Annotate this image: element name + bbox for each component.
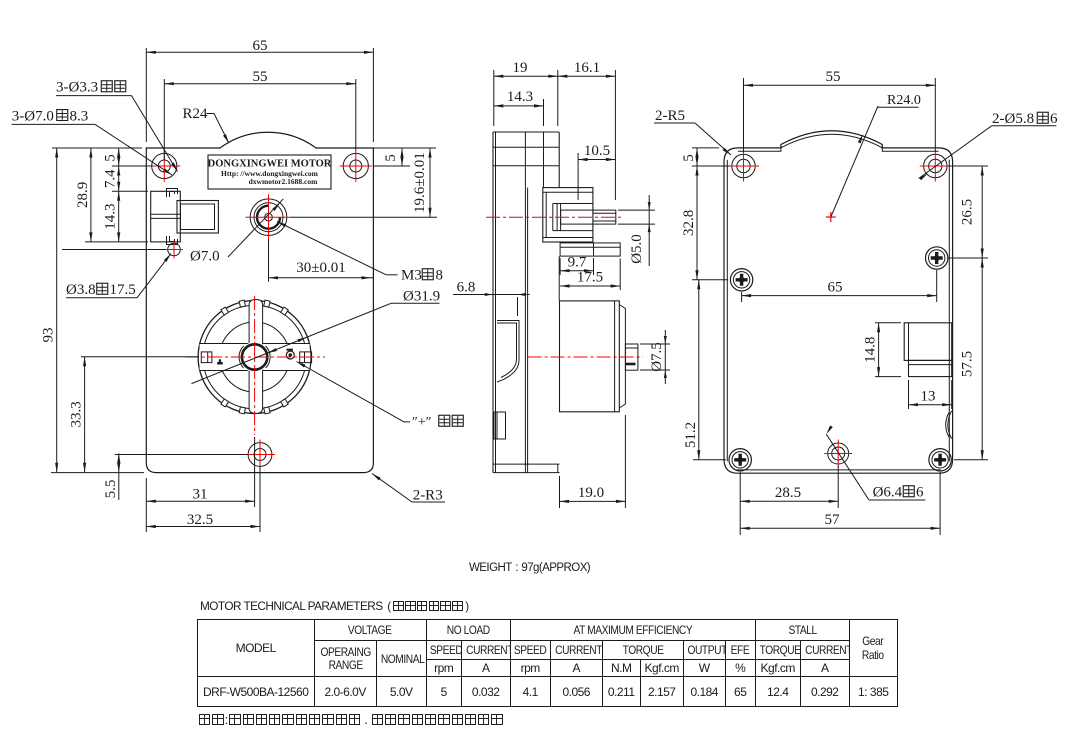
dim 5 back	[696, 148, 698, 166]
dim 28.9	[90, 148, 92, 242]
back bottom-right screw	[929, 449, 951, 471]
front left extension top	[52, 147, 142, 149]
front left ext y242	[85, 241, 148, 243]
svg-text:M3: M3	[401, 268, 422, 284]
svg-text:R24.0: R24.0	[887, 93, 921, 108]
svg-text:Ø6.4: Ø6.4	[873, 485, 903, 501]
right ext line y166b	[373, 165, 410, 167]
parameters table	[197, 619, 898, 707]
side motor cap	[614, 301, 616, 412]
svg-text:Ø7.0: Ø7.0	[190, 249, 220, 265]
side body left double edge	[495, 132, 497, 473]
dim 51.2	[698, 280, 700, 460]
back bottom-left screw	[729, 449, 751, 471]
svg-text:5: 5	[103, 154, 119, 162]
front top-right hole	[343, 153, 368, 178]
front left ext y166	[112, 165, 152, 167]
svg-text:14.3: 14.3	[507, 89, 533, 105]
svg-text:2-R5: 2-R5	[655, 108, 685, 124]
side ext 10.5	[577, 153, 579, 200]
dim 5.5	[118, 454, 120, 473]
dim 13	[909, 404, 952, 406]
front top-left hole 3-Ø3.3	[152, 153, 177, 178]
back connector	[904, 323, 952, 361]
side motor shaft	[625, 344, 638, 370]
dim 5 left	[118, 148, 120, 166]
front connector bottom hook	[167, 236, 178, 245]
svg-text:6.8: 6.8	[457, 280, 476, 296]
bottom hole extension left	[115, 454, 248, 456]
svg-text:17.5: 17.5	[577, 270, 603, 286]
dim 19 side	[494, 75, 558, 77]
side ext 14.3	[543, 99, 545, 126]
back bottom-center hole	[828, 443, 849, 464]
central hub circles	[250, 199, 287, 236]
dim 55	[164, 83, 355, 85]
svg-text:Ø31.9: Ø31.9	[403, 289, 440, 305]
hub right extension	[291, 216, 437, 218]
side red center line upper	[486, 216, 624, 218]
gear face outer circles	[198, 301, 311, 414]
back mid-left screw	[730, 269, 752, 291]
svg-text:Ø3.8: Ø3.8	[66, 282, 96, 298]
svg-text:DONGXINGWEI MOTOR: DONGXINGWEI MOTOR	[208, 159, 332, 170]
back mid ext	[741, 292, 743, 302]
svg-text:57: 57	[825, 512, 841, 528]
svg-text:5: 5	[383, 154, 399, 162]
side ext 19.0	[559, 476, 561, 508]
gear center extension down	[254, 437, 256, 507]
front bottom hole	[248, 443, 272, 467]
svg-text:14.8: 14.8	[863, 337, 879, 363]
gear face center hub	[240, 342, 270, 372]
svg-text:10.5: 10.5	[584, 143, 610, 159]
back body inner outline	[738, 134, 939, 151]
svg-text:19.0: 19.0	[578, 485, 604, 501]
side body bottom band	[493, 463, 560, 465]
side ext 6.8	[517, 297, 519, 316]
back top-left hole crosshair	[728, 165, 759, 167]
svg-text:3-Ø3.3: 3-Ø3.3	[56, 80, 98, 96]
svg-text:33.3: 33.3	[69, 401, 85, 427]
gear P mark	[217, 362, 223, 365]
dim 17.5	[619, 259, 621, 291]
front left ext bottom	[51, 472, 144, 474]
dim 93	[56, 148, 58, 472]
dim 55 back	[744, 84, 936, 86]
dim Ø7.5	[640, 343, 670, 345]
svg-text:19.6±0.01: 19.6±0.01	[412, 152, 428, 213]
front connector mid lines	[151, 213, 181, 215]
remark note	[198, 712, 504, 727]
back ext 14.8	[875, 322, 901, 324]
svg-text:9.7: 9.7	[568, 255, 587, 271]
back top-left hole	[732, 154, 755, 177]
hub bottom extension	[268, 240, 270, 282]
front view body outline	[146, 132, 373, 472]
dim 7.4	[118, 166, 120, 191]
svg-text:7.4: 7.4	[103, 169, 119, 188]
svg-text:31: 31	[193, 487, 208, 503]
dim 14.8	[878, 323, 880, 377]
side connector outer	[543, 188, 593, 242]
svg-text:65: 65	[828, 280, 843, 296]
dim 65 extension lines	[145, 48, 147, 142]
side body outline	[493, 131, 559, 133]
dim 28.5	[740, 500, 838, 502]
table title	[200, 599, 471, 613]
dim 57.5	[981, 258, 983, 460]
gear face vertical bar	[249, 300, 263, 414]
dim 19.6 right	[429, 148, 431, 217]
back bottom-center hole crosshair	[824, 453, 852, 455]
svg-text:13: 13	[921, 389, 936, 405]
svg-text:93: 93	[41, 328, 57, 343]
dim 65	[146, 51, 373, 53]
side connector cavity	[553, 203, 593, 205]
side connector inner verticals	[556, 204, 558, 231]
svg-text:57.5: 57.5	[960, 351, 976, 377]
svg-text:5: 5	[681, 154, 697, 162]
dim 33.3 ext	[81, 356, 199, 358]
bottom hole extension down	[259, 466, 261, 532]
side connector bands	[543, 191, 593, 193]
side connector pin	[561, 210, 616, 224]
svg-text:28.5: 28.5	[775, 485, 801, 501]
svg-text:R24: R24	[182, 106, 208, 122]
back body outline	[724, 131, 953, 473]
front top-right hole crosshair	[340, 165, 372, 167]
front left ext y191	[112, 190, 148, 192]
back top-right hole	[924, 154, 947, 177]
dim 10.5	[578, 159, 615, 161]
front connector body	[151, 191, 181, 242]
dim 14.3 side	[494, 105, 544, 107]
front connector top hook	[167, 189, 178, 198]
back ext top holes up	[743, 78, 745, 152]
dim 5 right	[401, 148, 403, 166]
back R24 center mark	[826, 216, 836, 218]
gear face mid circle	[220, 322, 290, 392]
svg-text:30±0.01: 30±0.01	[296, 260, 345, 276]
gear rim notches	[281, 307, 289, 315]
side recess panel	[497, 321, 519, 383]
svg-text:32.8: 32.8	[681, 210, 697, 236]
svg-text:6: 6	[916, 485, 924, 501]
side body left edge lower	[492, 188, 494, 473]
side body vertical x525	[524, 132, 526, 473]
dim 31	[146, 500, 254, 502]
back right ext lines	[948, 165, 988, 167]
dim 14.3 left	[118, 191, 120, 242]
dim 55 extension lines	[163, 79, 165, 160]
dim 65 back	[742, 295, 937, 297]
front connector plug end line	[214, 204, 216, 230]
back mid-right screw	[926, 247, 948, 269]
back top-right hole crosshair	[920, 165, 951, 167]
side body top inner lines	[493, 146, 559, 148]
side motor cylinder	[560, 301, 620, 412]
back ext bottom	[739, 472, 741, 535]
side red center line lower	[528, 356, 643, 358]
svg-text:55: 55	[826, 69, 841, 85]
side step below connector	[560, 243, 620, 256]
gear face horizontal band	[200, 344, 310, 371]
svg-text:″+″: ″+″	[412, 415, 432, 430]
svg-text:Ø7.5: Ø7.5	[649, 342, 665, 372]
svg-text:28.9: 28.9	[75, 182, 91, 208]
gear center red lines	[254, 296, 256, 435]
front bottom ext left low	[145, 478, 147, 532]
hole Ø3.8	[168, 243, 181, 256]
svg-text:5.5: 5.5	[103, 480, 119, 499]
back ext 13	[908, 380, 910, 409]
front left ext y249	[62, 249, 166, 251]
dim 57 back	[740, 527, 940, 529]
dim Ø5.0	[618, 209, 655, 211]
svg-text:2-Ø5.8: 2-Ø5.8	[992, 111, 1034, 127]
svg-text:16.1: 16.1	[574, 60, 600, 76]
front bottom hole crosshair	[245, 454, 275, 456]
svg-text:3-Ø7.0: 3-Ø7.0	[12, 108, 54, 124]
front connector plug	[177, 201, 218, 234]
svg-text:Ø5.0: Ø5.0	[629, 234, 645, 264]
front top-left hole crosshair	[148, 165, 180, 167]
gear screw small circle	[286, 351, 294, 359]
dim 26.5	[981, 166, 983, 258]
dim 9.7	[559, 258, 561, 275]
svg-text:26.5: 26.5	[960, 199, 976, 225]
svg-text:65: 65	[253, 38, 268, 54]
dim 19.0	[560, 500, 626, 502]
side ext top	[493, 70, 495, 126]
svg-text:2-R3: 2-R3	[413, 488, 443, 504]
dim 16.1	[558, 75, 616, 77]
svg-text:6: 6	[1050, 111, 1058, 127]
svg-text:19: 19	[513, 60, 528, 76]
central hub crosshair	[246, 216, 292, 218]
back right edge arc	[948, 411, 952, 439]
svg-text:dxwmotor2.1688.com: dxwmotor2.1688.com	[249, 177, 318, 186]
dim 33.3	[84, 357, 86, 473]
svg-text:8.3: 8.3	[70, 108, 89, 124]
dim 32.5	[146, 526, 260, 528]
hole Ø3.8 crosshair	[165, 249, 183, 251]
svg-text:8: 8	[436, 268, 444, 284]
side slot lower left	[494, 412, 506, 439]
svg-text:17.5: 17.5	[110, 282, 136, 298]
svg-text:55: 55	[253, 69, 268, 85]
maker label box	[208, 155, 331, 189]
svg-text:51.2: 51.2	[683, 422, 699, 448]
back left ext lines	[692, 147, 719, 149]
side body right edge mid	[558, 256, 560, 301]
svg-text:32.5: 32.5	[187, 512, 213, 528]
side body vertical x543	[543, 132, 545, 188]
svg-text:14.3: 14.3	[103, 203, 119, 229]
weight note	[469, 562, 590, 574]
dim 32.8	[696, 166, 698, 280]
dim 30±0.01	[269, 277, 374, 279]
